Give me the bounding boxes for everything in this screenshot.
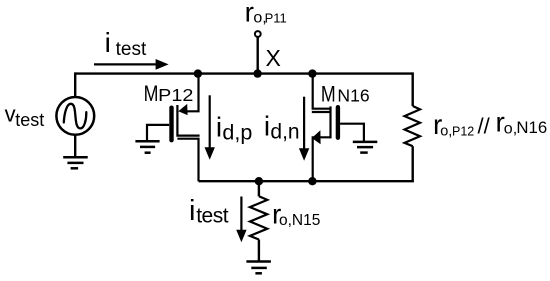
wire stub from bottom rail to resistor ro,N15 [258, 181, 260, 196]
svg-text:i: i [216, 112, 222, 143]
junction dot bottom rail left [255, 177, 263, 185]
MN16 channel line [329, 106, 331, 138]
svg-text:test: test [196, 205, 229, 228]
svg-text:N16: N16 [516, 118, 547, 137]
svg-text://: // [478, 114, 491, 139]
resistor ro,P12 // ro,N16 zigzag [405, 106, 421, 146]
ground at MN16 gate [353, 142, 378, 153]
MP12 drain lead down to bottom rail [177, 139, 198, 182]
junction dot at MN16 drain on top rail [308, 69, 316, 77]
voltage source Vtest circle [56, 97, 94, 135]
svg-text:v: v [5, 101, 16, 126]
current arrow itest pointing right [94, 63, 156, 65]
svg-text:P12: P12 [158, 85, 193, 105]
open terminal circle of ro,P11 [255, 31, 261, 37]
wire bottom rail [199, 180, 414, 182]
current arrow itest bottom pointing down [240, 197, 242, 232]
ground at MP12 gate [135, 141, 159, 153]
wire stub from terminal down to node X [257, 37, 259, 74]
svg-text:X: X [266, 45, 281, 71]
voltage source sine symbol [64, 104, 87, 129]
MP12 gate lead [147, 125, 169, 141]
MP12 source arrowhead pointing left [178, 104, 187, 115]
svg-text:P11: P11 [265, 10, 287, 25]
MN16 channel upper stub line [312, 111, 331, 113]
svg-text:d,n: d,n [270, 121, 299, 144]
ground under ro,N15 [246, 262, 271, 274]
svg-text:M: M [321, 82, 336, 107]
ground under Vtest [63, 157, 87, 168]
MN16 source arrowhead pointing left [312, 130, 321, 144]
wire top rail from source to right branch [75, 72, 413, 74]
svg-text:o,: o, [504, 120, 517, 137]
svg-text:P12: P12 [452, 124, 474, 138]
current arrow id,n pointing down [303, 97, 305, 150]
junction dot node X [253, 69, 261, 77]
svg-text:d,p: d,p [222, 121, 252, 145]
transistor MN16 [312, 72, 364, 181]
wire stub from resistor to ground [258, 240, 260, 262]
transistor MP12 [147, 72, 200, 181]
svg-text:i: i [264, 110, 270, 141]
MN16 gate lead [340, 124, 364, 142]
MP12 gate bar [169, 108, 173, 141]
svg-text:o,: o, [440, 124, 452, 140]
svg-text:o,N15: o,N15 [279, 212, 320, 229]
svg-text:test: test [15, 110, 44, 130]
MP12 source lead from top rail [185, 72, 199, 111]
MN16 gate bar [336, 107, 340, 138]
resistor ro,N15 zigzag [250, 196, 267, 239]
current arrow id,p pointing down [209, 95, 211, 148]
wire left vertical from rail down to source top [74, 72, 76, 96]
svg-text:N16: N16 [337, 86, 369, 106]
svg-text:i: i [105, 27, 111, 58]
wire right vertical top [412, 72, 414, 106]
junction dot at MP12 source on top rail [194, 69, 202, 77]
svg-text:i: i [189, 195, 195, 227]
wire right vertical bottom [412, 146, 414, 181]
wire source bottom to ground [74, 135, 76, 158]
svg-text:test: test [116, 39, 147, 60]
junction dot bottom rail right [308, 177, 316, 185]
MN16 drain lead from top rail [313, 72, 332, 108]
MP12 channel line and upper drain line [177, 105, 199, 136]
MN16 source lead down to bottom rail [313, 137, 331, 181]
svg-text:M: M [144, 81, 159, 106]
